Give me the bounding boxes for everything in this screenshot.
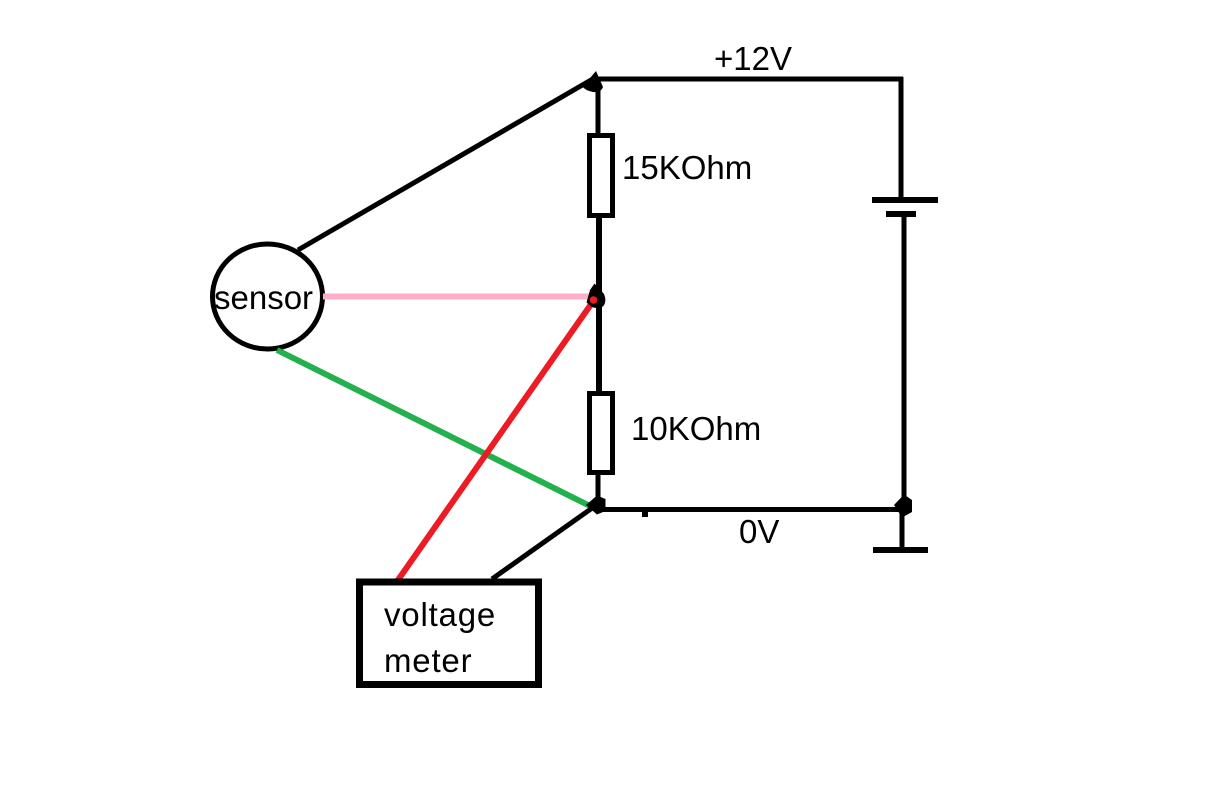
node arrowhead at divider mid point — [587, 284, 606, 309]
svg-text:15KOhm: 15KOhm — [622, 149, 752, 186]
wire arrow node to R1 top — [596, 85, 601, 134]
wire sensor to +12V node (black diagonal) — [298, 80, 591, 250]
svg-text:+12V: +12V — [714, 40, 792, 77]
wire +12V top rail — [596, 77, 903, 82]
svg-text:0V: 0V — [739, 513, 779, 550]
resistor R2 body — [590, 394, 613, 473]
wire R1 bottom to R2 top (through mid node) — [596, 215, 602, 393]
stray tick below 0V rail — [642, 511, 648, 517]
svg-text:voltage: voltage — [384, 596, 496, 633]
red wire tip dot at mid node — [590, 296, 598, 304]
battery short plate (-) — [886, 211, 916, 217]
battery long plate (+) — [872, 197, 938, 203]
svg-text:10KOhm: 10KOhm — [631, 410, 761, 447]
wire black 0V node to voltage meter — [492, 506, 595, 579]
wire right vertical upper (battery +) — [899, 77, 904, 199]
wire red mid node to voltage meter — [398, 300, 594, 580]
wire green sensor to 0V node — [277, 350, 590, 506]
wire R2 bottom to 0V node — [596, 472, 601, 505]
wire pink sensor to mid node — [323, 294, 589, 300]
svg-text:sensor: sensor — [214, 279, 313, 316]
wire 0V bottom rail — [600, 507, 903, 512]
node arrowhead at +12V junction — [582, 71, 603, 92]
battery bottom terminal bar — [873, 547, 928, 553]
sensor circle — [213, 244, 323, 349]
svg-text:meter: meter — [384, 642, 472, 679]
resistor R1 body — [590, 136, 613, 216]
voltage meter box — [360, 582, 539, 685]
wire right vertical stub to bottom terminal — [900, 505, 905, 550]
node blob at 0V divider junction — [586, 496, 606, 515]
node blob at 0V right junction — [894, 495, 912, 518]
wire right vertical lower — [902, 217, 907, 505]
